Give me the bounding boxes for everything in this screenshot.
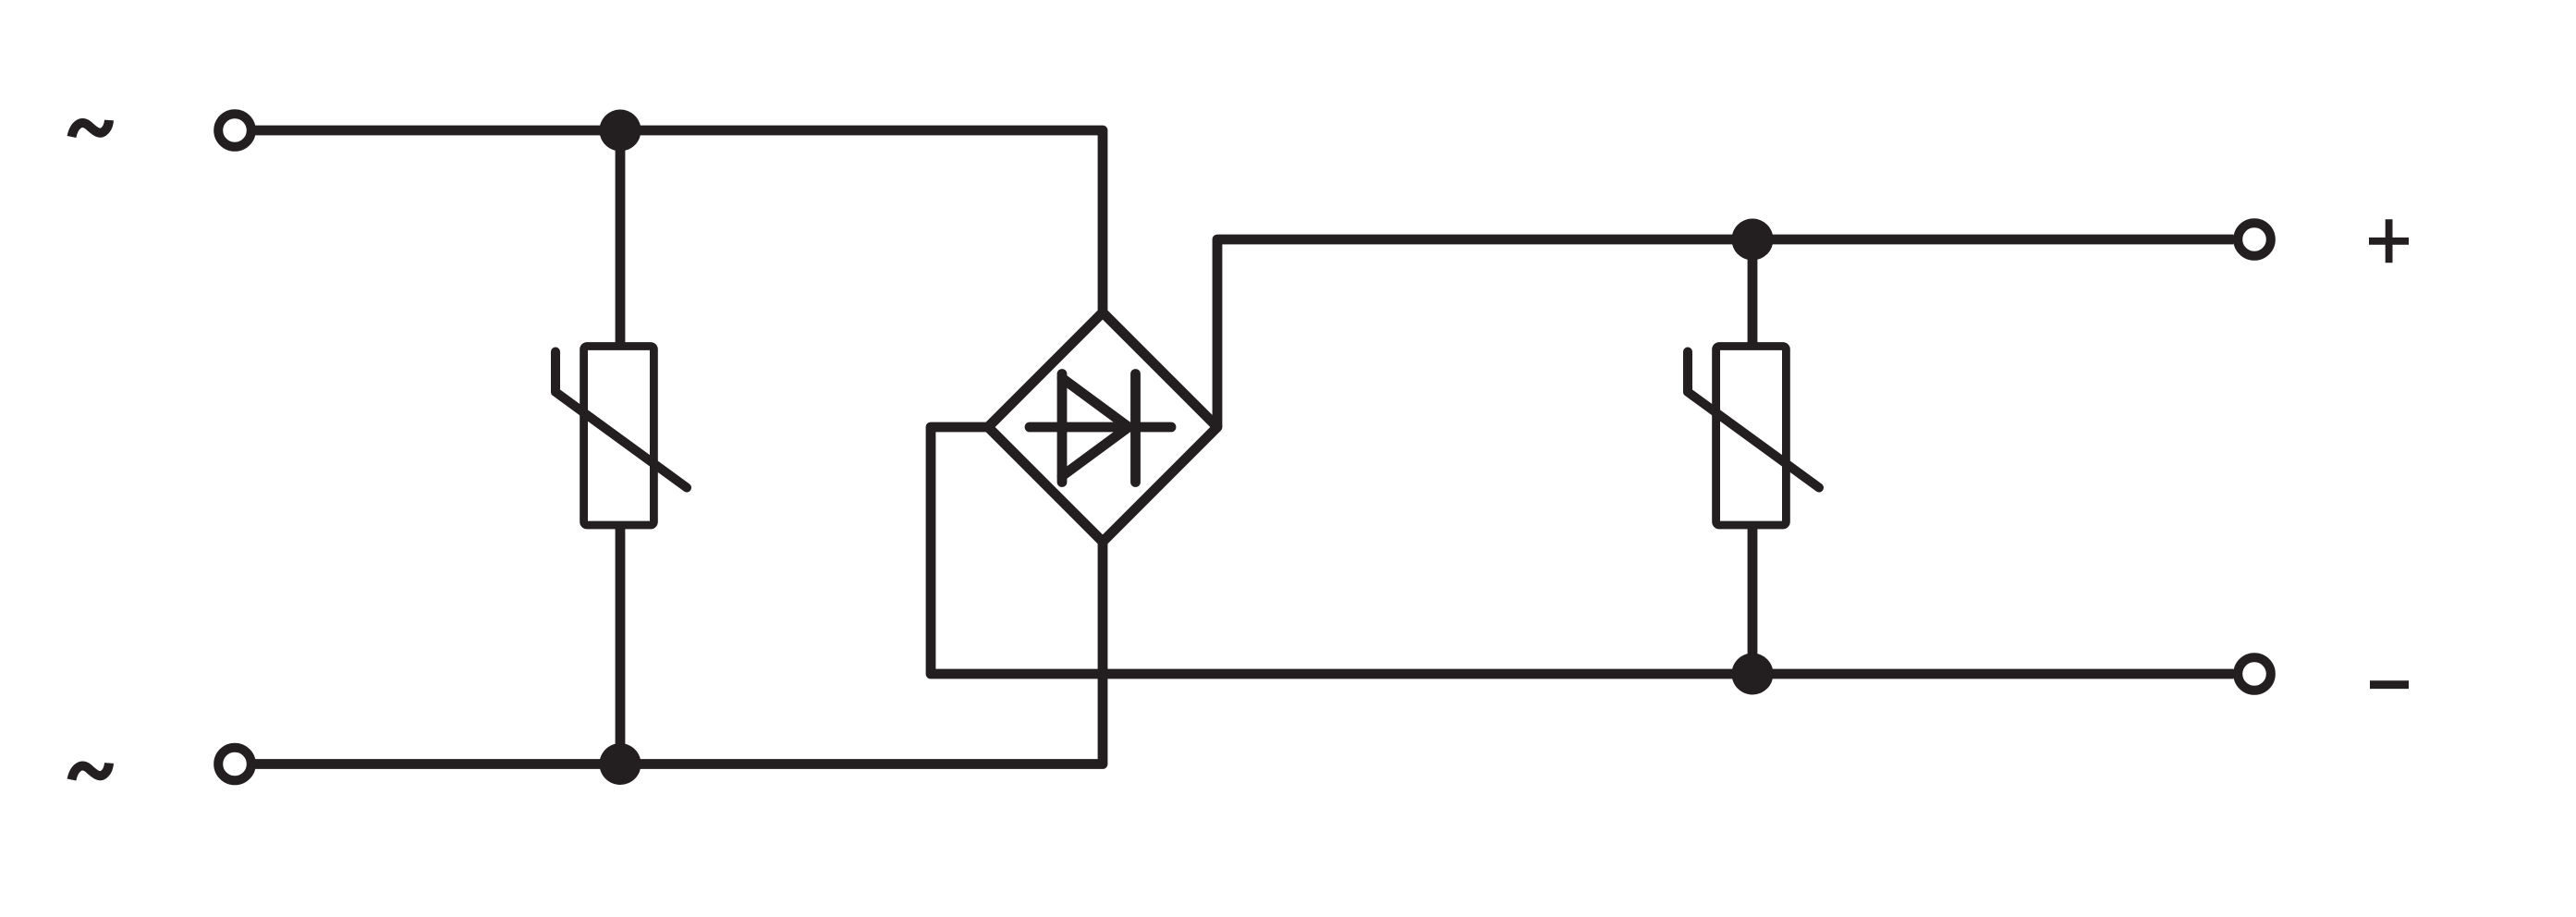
- terminal DC- (open circle, right): [2238, 657, 2271, 691]
- varistor RV2 strike line with hook: [1688, 352, 1819, 488]
- label + (DC plus output): [2369, 219, 2409, 263]
- terminal AC2 (open circle, bottom left): [218, 748, 251, 781]
- junction node B (bottom rail / varistor RV1): [600, 743, 641, 785]
- wire: RV2 top lead: [1748, 248, 1758, 347]
- varistor RV2 body: [1716, 347, 1787, 526]
- wire: RV1 bottom lead: [616, 525, 626, 764]
- label - (DC minus output): [2370, 680, 2409, 689]
- wire: RV2 bottom lead: [1748, 525, 1758, 674]
- junction node C (+ rail / varistor RV2): [1732, 219, 1774, 261]
- wire: AC2 bottom rail from terminal to bridge bottom vertex: [255, 542, 1104, 764]
- wire: AC1 top rail from terminal to bridge top vertex: [255, 130, 1104, 312]
- terminal AC1 (open circle, top left): [218, 114, 251, 147]
- wire: DC- rail from bridge left vertex to - terminal: [931, 427, 2234, 674]
- junction node D (- rail / varistor RV2): [1732, 654, 1774, 695]
- diode D1 axis line: [1030, 422, 1171, 433]
- diode D1 cathode bar: [1130, 374, 1141, 483]
- bridge rectifier B1 diamond outline: [988, 312, 1217, 542]
- junction node A (top rail / varistor RV1): [600, 110, 641, 152]
- diode D1 triangle edges: [1062, 378, 1129, 476]
- wire: RV1 top lead: [616, 139, 626, 347]
- wire: DC+ rail from bridge right vertex to + terminal: [1217, 239, 2234, 427]
- varistor RV1 body: [584, 347, 654, 526]
- terminal DC+ (open circle, right): [2238, 223, 2271, 256]
- label ~ (AC input 2, bottom left): [72, 764, 110, 780]
- diode D1 anode bar (triangle base): [1057, 374, 1068, 483]
- label ~ (AC input 1, top left): [72, 120, 110, 137]
- varistor RV1 strike line with hook: [555, 352, 687, 488]
